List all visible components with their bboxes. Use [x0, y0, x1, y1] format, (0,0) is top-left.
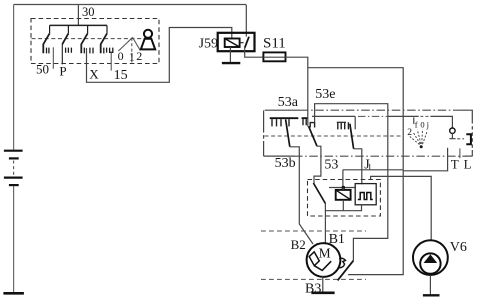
- relay internal contact line: [329, 187, 355, 189]
- pump V6: inner circle: [420, 253, 440, 273]
- wire: fuse branch to washer feed: [308, 68, 403, 275]
- dashed link to L socket: [457, 138, 464, 140]
- pump V6: rotor triangle: [424, 254, 438, 263]
- washer contact tick 2: [413, 117, 415, 124]
- wire: T output down to pump feed line: [403, 148, 448, 171]
- socket L: bracket: [466, 134, 471, 144]
- svg-text:f: f: [415, 119, 418, 129]
- wire: coil bottom lead: [342, 200, 344, 211]
- ignition position selector: inverted V: [118, 37, 140, 51]
- connector T: circle: [450, 128, 455, 133]
- switch contact 50 (group 1): [43, 25, 49, 53]
- ignition position selector: dashed axis: [131, 38, 133, 64]
- mechanical dash-dot line (upper): [300, 109, 459, 111]
- wire: rail 30 down to J59 contact: [245, 5, 247, 37]
- relay internal switch blade: [313, 183, 325, 204]
- battery A: plates: [4, 151, 23, 185]
- svg-text:T: T: [451, 157, 459, 172]
- wiper switch enclosure: left/top/bottom/right edges: [264, 110, 473, 156]
- svg-text:P: P: [59, 63, 66, 78]
- svg-text:B3: B3: [305, 282, 321, 297]
- svg-text:53: 53: [324, 157, 338, 172]
- svg-text:53e: 53e: [315, 87, 335, 102]
- mechanical dash-dot line (lower): [294, 155, 466, 157]
- wire: branch to pump V6: [371, 176, 432, 240]
- ground: J59 coil: [222, 62, 240, 64]
- pulse generator: square wave: [358, 193, 373, 200]
- svg-text:S11: S11: [263, 36, 286, 52]
- relay J59: link dash: [240, 42, 244, 44]
- wire: 53e net to intermittent relay coil: [343, 170, 403, 188]
- wire: J59 coil to ground: [229, 47, 231, 62]
- connector T: stem and foot: [449, 133, 455, 138]
- wire: J59 contact output to fuse: [245, 48, 264, 57]
- relay J59: coil: [225, 39, 240, 48]
- contact 53a: comb bar: [270, 117, 308, 119]
- svg-text:0: 0: [420, 119, 424, 129]
- contact 53/J: comb bar and ticks: [337, 121, 346, 123]
- dashed position line inside switch: [265, 135, 403, 137]
- limit switch cam: [339, 258, 345, 267]
- wire: washer contact line: [312, 116, 355, 129]
- svg-text:30: 30: [82, 5, 95, 19]
- contact J: blade: [350, 124, 354, 149]
- contact 53a: blade: [286, 119, 290, 146]
- node: J terminal lead: [369, 164, 371, 170]
- fuse S11: [263, 52, 285, 61]
- ground: V6: [423, 294, 440, 296]
- svg-text:50: 50: [36, 62, 49, 77]
- wire: J blade output to pulse generator: [354, 149, 362, 185]
- switch contact 15 (group 4): [101, 25, 113, 53]
- washer position fan: pivot dot: [420, 145, 423, 148]
- relay J59: housing: [218, 33, 255, 51]
- limit switch blade: [338, 261, 354, 281]
- svg-text:J59: J59: [199, 36, 218, 51]
- wire: 53e blade output: [314, 146, 321, 183]
- svg-text:M: M: [319, 245, 331, 260]
- wire: V6 to ground: [429, 275, 431, 294]
- svg-text:L: L: [464, 157, 472, 172]
- svg-text:B2: B2: [291, 237, 306, 252]
- pulse generator box: [355, 184, 376, 205]
- washer position fan: rays: [410, 129, 427, 144]
- svg-text:j: j: [426, 120, 429, 130]
- relay J59: contact blade: [245, 37, 249, 48]
- svg-text:2: 2: [136, 49, 142, 63]
- net 53e: inner box: [315, 104, 388, 261]
- wire: battery left column: [13, 5, 15, 293]
- contact 53e: blade: [309, 126, 317, 146]
- ground: battery bottom: [3, 292, 24, 295]
- wiper motor V: housing circle: [307, 243, 341, 277]
- node: terminal 30 lead into ignition switch: [77, 5, 79, 26]
- wire: motor B3 to ground: [322, 276, 324, 292]
- wire: coil top lead: [342, 188, 344, 190]
- battery cell dashed link: [13, 161, 15, 177]
- svg-text:1: 1: [129, 49, 135, 63]
- dashed chassis line below motor: [261, 278, 366, 280]
- contact 53e: fixed bracket: [310, 123, 314, 128]
- relay coil J31: [336, 190, 351, 200]
- wire: X terminal to J59 coil: [87, 28, 232, 83]
- wire: blade output bus: [325, 204, 361, 211]
- contact 53a: comb ticks: [272, 119, 306, 126]
- wire: fuse output: [263, 56, 285, 58]
- ignition switch: internal bus bar: [50, 24, 107, 26]
- svg-text:0: 0: [118, 49, 124, 63]
- washer pump V6: outer circle: [413, 240, 448, 275]
- svg-text:53b: 53b: [275, 156, 296, 171]
- node: lead of terminal 15: [110, 52, 112, 70]
- intermittent wiper relay: dashed housing: [308, 180, 381, 217]
- svg-text:X: X: [89, 67, 99, 82]
- node: lead of terminal 50: [52, 47, 54, 69]
- wire: battery positive rail 30 (top): [14, 4, 246, 6]
- svg-text:15: 15: [114, 68, 128, 83]
- node: junction dot: [342, 186, 346, 190]
- switch contact P (group 2): [62, 25, 71, 64]
- ground: B3: [311, 291, 334, 294]
- svg-text:2: 2: [407, 128, 412, 138]
- ignition switch: mechanical dashed coupling line: [32, 38, 147, 40]
- svg-text:53a: 53a: [278, 95, 299, 110]
- ignition/starter switch D: dashed enclosure: [31, 19, 159, 64]
- wire: B1 to motor: [324, 211, 326, 245]
- svg-text:V6: V6: [450, 240, 467, 255]
- motor: wiper blade icon: [309, 252, 319, 266]
- ignition key symbol: [141, 30, 155, 50]
- dashed chassis line above motor: [261, 230, 366, 232]
- node: L terminal lead: [459, 148, 461, 158]
- wire: 53a blade output to B2: [290, 147, 313, 244]
- switch contact X (group 3): [81, 25, 93, 53]
